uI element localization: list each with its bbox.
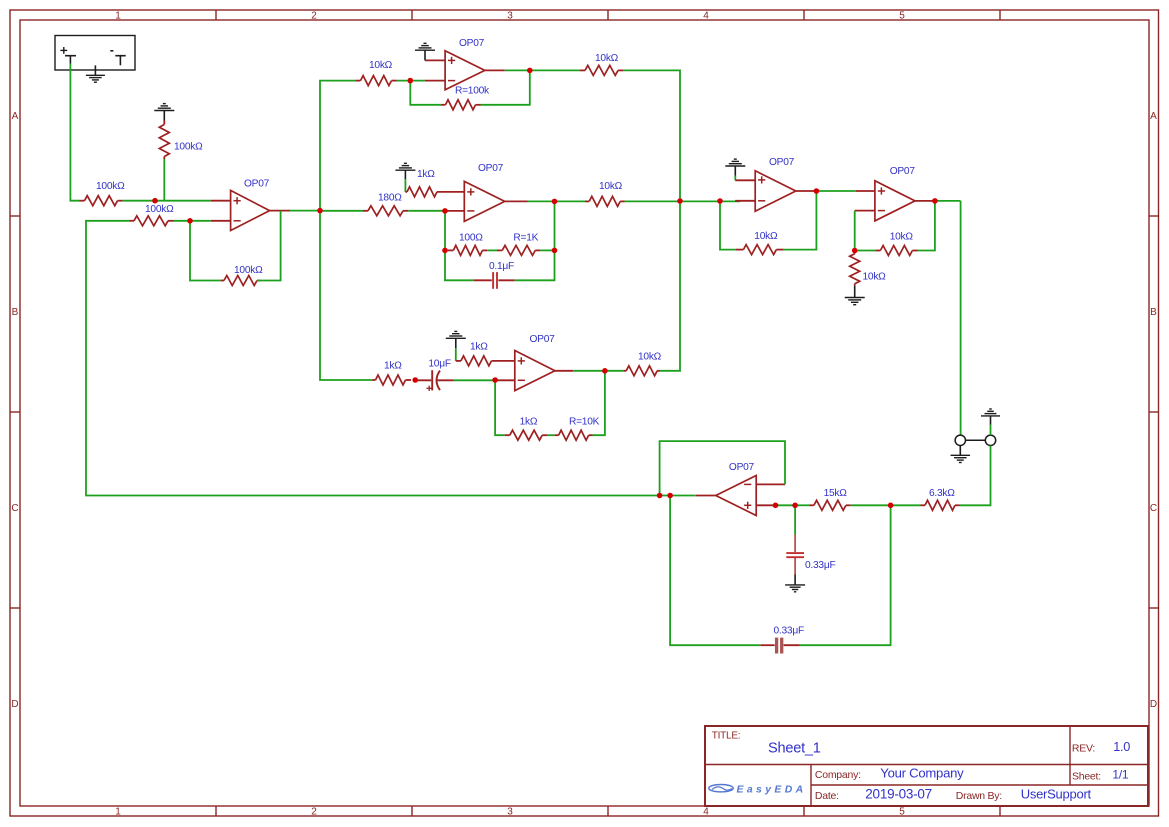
pin U6 plus [756,504,775,506]
ground below C3 [785,575,805,592]
svg-text:Company:: Company: [815,769,861,781]
ground at U3 plus [395,163,415,179]
svg-text:10kΩ: 10kΩ [754,231,778,242]
wire U2 output [505,69,580,71]
wire R22 to node [851,504,891,506]
junction U3 fb right [552,248,558,254]
svg-text:100kΩ: 100kΩ [96,181,125,192]
svg-text:10kΩ: 10kΩ [595,53,619,64]
svg-text:4: 4 [703,11,709,22]
title block [705,726,1148,806]
svg-text:0.1μF: 0.1μF [489,261,514,272]
svg-text:10kΩ: 10kΩ [369,60,393,71]
junction U3b output node [602,368,608,374]
ground below R20 [845,286,865,305]
wire U6 output short [660,495,696,497]
wire U3b fb down [495,380,505,435]
wire R22 left [795,504,809,506]
svg-text:1/1: 1/1 [1112,768,1129,782]
wire battery to R1 [70,64,79,201]
junction U2 minus node [408,78,414,84]
wire U5 output down [960,201,962,435]
svg-text:OP07: OP07 [459,38,485,49]
EasyEDA logo [709,785,733,792]
svg-text:100kΩ: 100kΩ [234,265,263,276]
capacitor C3 0.33uF [786,535,804,575]
wire R3 to U1 minus [174,220,211,222]
svg-text:Sheet:: Sheet: [1072,770,1101,782]
svg-text:180Ω: 180Ω [378,192,402,203]
op-amp U6 OP07 mirrored [716,476,756,516]
svg-text:1.0: 1.0 [1113,740,1130,754]
junction U5 fb node [852,248,858,254]
pin U3b minus [495,379,515,381]
wire U3b output [573,370,623,372]
pin U3 output [505,200,528,202]
junction U1 output node [317,208,323,214]
pin U6 output [696,495,716,497]
capacitor C1 10uF polarized [415,370,454,391]
svg-text:B: B [1150,307,1157,318]
junction bus mid [677,198,683,204]
wire ground elbow U4 [734,176,736,181]
svg-text:100kΩ: 100kΩ [145,204,174,215]
resistor R22 15k [809,500,851,510]
wire R10 to R11 [487,249,497,251]
wire U4 output [816,190,856,192]
wire C 0.1uF right [515,250,555,280]
svg-text:D: D [11,699,18,710]
wire C2 right [800,505,891,645]
pin U1 output [270,210,290,212]
resistor R4 100k feedback [221,276,261,286]
wire R11 right [540,249,554,251]
junction U3b minus node [492,377,498,383]
resistor R5 180 [363,206,408,216]
resistor R11 R=1K [497,245,540,255]
pin U2 plus [425,59,445,61]
wire R8 down right bus [623,70,680,201]
resistor R17 10k [623,366,660,376]
pin U4 plus [735,179,755,181]
resistor R9 1k [405,187,437,197]
svg-text:REV:: REV: [1072,743,1095,755]
svg-text:10kΩ: 10kΩ [638,352,662,363]
ground below left circle [951,446,971,463]
wire to U6 plus [776,504,796,506]
op-amp U3 OP07 [464,181,504,221]
pin U4 output [796,190,816,192]
resistor R6 10k [355,76,396,86]
junction U5 output node [932,198,938,204]
wire node to R5 [320,210,363,212]
wire U1 feedback right [257,211,281,281]
svg-text:Drawn By:: Drawn By: [956,790,1002,802]
wire U1 output [290,210,320,212]
svg-text:OP07: OP07 [478,163,504,174]
svg-text:EasyEDA: EasyEDA [737,785,807,796]
wire U5 output [935,200,961,202]
resistor R18 10k feedback [736,245,784,255]
pin U1 minus [211,220,231,222]
battery source box [55,36,135,76]
svg-text:3: 3 [507,807,513,818]
wire U3 output [528,200,586,202]
resistor R16 R=10K [555,430,593,440]
svg-text:Your Company: Your Company [880,765,964,780]
resistor R8 10k [580,65,623,75]
svg-text:10μF: 10μF [428,358,450,369]
ground at U2 plus [415,43,435,60]
wire ground elbow U3b [455,348,457,361]
svg-text:R=1K: R=1K [513,233,538,244]
resistor R20 10k to ground [850,251,860,286]
resistor R19 10k feedback [875,246,917,256]
wire C2 left up [670,496,760,646]
resistor R12 10k [585,196,625,206]
battery ground [86,75,105,82]
wire U5 fb right [918,201,935,251]
svg-text:1: 1 [115,807,121,818]
svg-text:1kΩ: 1kΩ [384,361,402,372]
junction U6 plus node [773,503,779,509]
wire node to U2 input [320,81,355,211]
op-amp U4 OP07 [755,171,796,211]
pin U5 output [915,200,935,202]
svg-text:1: 1 [115,11,121,22]
svg-text:0.33μF: 0.33μF [805,560,835,571]
wire U6 unity feedback [660,441,785,495]
pin U4 minus [735,200,755,202]
ground above R2 [154,104,174,121]
pin U5 plus [856,190,875,192]
svg-text:2: 2 [311,11,317,22]
svg-text:A: A [1150,111,1157,122]
svg-text:3: 3 [507,11,513,22]
svg-text:TITLE:: TITLE: [712,730,741,741]
wire circle to R21 [960,446,991,506]
svg-text:15kΩ: 15kΩ [824,488,848,499]
junction U3 minus node [442,208,448,214]
wire U3b fb up [593,371,605,435]
svg-text:10kΩ: 10kΩ [890,231,914,242]
svg-text:5: 5 [899,807,905,818]
wire to C 0.1uF left [445,250,474,280]
wire U1 feedback left [190,221,221,281]
svg-text:1kΩ: 1kΩ [417,169,435,180]
resistor R3 100k [130,216,174,226]
svg-text:100Ω: 100Ω [459,233,483,244]
connector link [966,439,986,441]
capacitor C2 0.33uF [760,638,800,654]
junction node IN+ [152,198,158,204]
wire U3 fb up [554,201,556,250]
svg-text:2019-03-07: 2019-03-07 [865,786,932,801]
wire R6 to U2 minus [397,80,425,82]
wire U2 feedback left [410,81,441,105]
pin U3b output [555,370,573,372]
wire C3 top [794,505,796,534]
connector circle left [955,435,965,445]
svg-text:4: 4 [703,807,709,818]
wire R12 to U4 minus [625,200,741,202]
junction U4 output node [814,188,820,194]
resistor R7 R=100k [441,100,481,110]
wire R21 to node [891,504,921,506]
svg-text:Date:: Date: [815,790,839,802]
connector circle right [985,435,995,445]
svg-text:1kΩ: 1kΩ [470,342,488,353]
wire node to U3b input [320,211,372,380]
pin U3 plus [437,191,464,193]
junction bottom right node [888,503,894,509]
wire R15 to R16 [547,434,555,436]
junction U3 output node [552,199,558,205]
ground above right circle [981,409,1000,425]
wire C1 to U3b minus [454,379,495,381]
junction C1 left [412,377,418,383]
wire R2 to node IN+ [163,159,165,201]
wire ground elbow U3 [404,179,406,192]
svg-text:OP07: OP07 [530,334,556,345]
wire R1 to U1 plus input [123,200,211,202]
svg-text:OP07: OP07 [729,462,755,473]
op-amp U3b OP07 [515,351,555,391]
junction U2 output node [527,68,533,74]
svg-text:UserSupport: UserSupport [1021,786,1092,801]
junction U1 minus node [187,218,193,224]
junction U6 fb [657,493,663,499]
svg-text:D: D [1150,699,1157,710]
wire U4 fb left [720,201,736,250]
wire ground to circle [990,425,992,435]
wire U5 minus down [854,211,856,251]
resistor R21 6.3k [921,500,960,510]
junction C3 node [792,503,798,509]
wire R5 to U3 minus [408,210,444,212]
resistor R14 1k [372,375,411,385]
wire U3 fb down [444,211,446,251]
svg-text:10kΩ: 10kΩ [599,181,623,192]
svg-text:OP07: OP07 [769,157,795,168]
resistor R15 1k [505,430,547,440]
wire R17 up right bus [660,201,680,371]
wire U4 fb right [784,191,817,250]
svg-text:OP07: OP07 [244,179,270,190]
pin U2 output [485,69,505,71]
pin U2 minus [425,80,445,82]
op-amp U5 OP07 [875,181,915,221]
wire main feedback loop [86,221,660,496]
svg-text:10kΩ: 10kΩ [863,272,887,283]
resistor R2 100k vertical [159,121,169,160]
junction U4 fb node [717,198,723,204]
svg-text:2: 2 [311,807,317,818]
pin U5 minus [855,210,875,212]
pin U6 minus [756,483,785,485]
capacitor C 0.1uF [474,272,515,289]
resistor R10 100 [448,245,488,255]
junction U6 cap branch [667,493,673,499]
resistor R1 100k [80,196,123,206]
pin U3b plus [492,360,515,362]
svg-text:B: B [12,307,19,318]
pin U3 minus [444,210,464,212]
svg-text:C: C [11,503,18,514]
op-amp U2 OP07 [445,51,485,90]
ground at U3b plus [446,331,466,348]
svg-text:A: A [12,111,19,122]
wire to R19 [855,250,876,252]
svg-text:OP07: OP07 [890,166,916,177]
svg-text:5: 5 [899,11,905,22]
junction U3 fb left [442,248,448,254]
svg-text:6.3kΩ: 6.3kΩ [929,488,955,499]
pin U1 plus [211,200,231,202]
wire U2 feedback right [481,70,530,104]
svg-text:100kΩ: 100kΩ [174,142,203,153]
svg-text:1kΩ: 1kΩ [520,417,538,428]
op-amp U1 OP07 [231,190,270,230]
svg-text:R=10K: R=10K [569,417,600,428]
resistor R13 1k [456,356,492,366]
svg-text:0.33μF: 0.33μF [774,625,804,636]
svg-text:Sheet_1: Sheet_1 [768,740,821,756]
svg-text:R=100k: R=100k [455,86,490,97]
ground at U4 plus [725,159,745,175]
svg-text:C: C [1150,503,1157,514]
